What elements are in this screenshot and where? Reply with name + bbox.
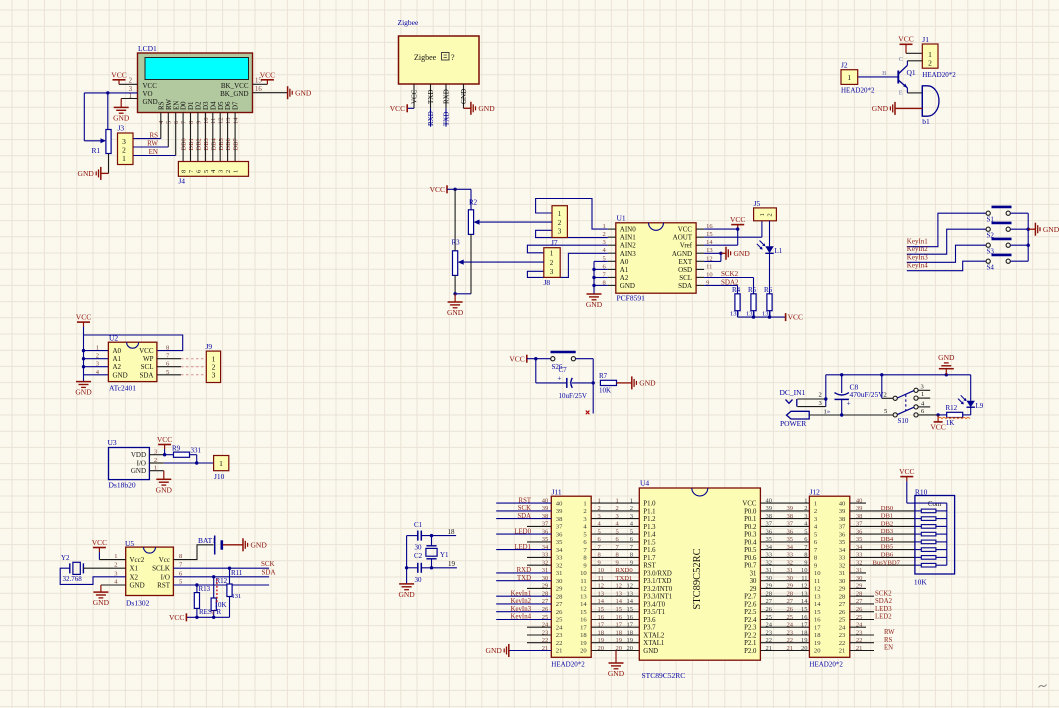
svg-text:29: 29: [856, 583, 863, 590]
svg-text:18: 18: [580, 632, 587, 639]
svg-text:1: 1: [122, 154, 126, 163]
svg-text:3: 3: [558, 227, 562, 235]
wires U4 to J12: [760, 502, 809, 504]
svg-text:21: 21: [787, 645, 794, 652]
svg-text:30: 30: [415, 576, 423, 584]
wire U3 GND: [163, 471, 165, 480]
svg-text:DB0: DB0: [181, 138, 188, 150]
svg-text:GND: GND: [608, 669, 625, 678]
svg-text:27: 27: [542, 598, 549, 605]
svg-text:30: 30: [750, 578, 757, 585]
svg-text:Ds18b20: Ds18b20: [109, 481, 136, 490]
svg-text:19: 19: [448, 560, 456, 568]
svg-text:22: 22: [556, 640, 563, 647]
svg-text:11: 11: [814, 578, 820, 585]
wire top rail: [826, 374, 971, 376]
svg-text:3: 3: [129, 86, 133, 93]
svg-text:27: 27: [839, 601, 846, 608]
svg-text:34: 34: [766, 544, 773, 551]
svg-text:17: 17: [598, 622, 605, 629]
svg-text:8: 8: [188, 121, 195, 124]
svg-text:2: 2: [129, 78, 133, 85]
svg-text:P3.1/TXD: P3.1/TXD: [643, 578, 671, 585]
wire J8 pin1 to U1 AIN2: [527, 245, 607, 253]
power VCC at U2: [83, 322, 85, 327]
svg-text:I/O: I/O: [161, 573, 170, 581]
svg-text:X1: X1: [130, 565, 139, 573]
svg-text:Vcc: Vcc: [159, 556, 170, 564]
svg-text:2: 2: [154, 457, 157, 464]
resistor R13: [195, 583, 198, 586]
svg-text:39: 39: [856, 505, 863, 512]
wire U1 VCC pin16: [704, 228, 738, 230]
svg-text:P0.6: P0.6: [744, 555, 757, 562]
svg-text:20: 20: [627, 645, 634, 652]
svg-text:24: 24: [766, 622, 773, 629]
ground at U1 address pins: [587, 293, 602, 295]
svg-text:12: 12: [218, 118, 225, 125]
svg-text:U4: U4: [640, 479, 649, 488]
LCD screen area: [145, 58, 249, 80]
svg-text:16: 16: [801, 614, 808, 621]
svg-text:RS: RS: [149, 131, 158, 139]
svg-text:P1.3: P1.3: [643, 524, 656, 531]
svg-text:R13: R13: [199, 585, 211, 593]
svg-text:38: 38: [556, 516, 563, 523]
svg-text:9: 9: [616, 560, 619, 567]
wire DC jack pin3: [797, 406, 825, 408]
svg-text:34: 34: [839, 547, 846, 554]
svg-text:VCC: VCC: [92, 538, 107, 547]
svg-text:AOUT: AOUT: [673, 234, 693, 242]
svg-text:P1.0: P1.0: [643, 501, 656, 508]
svg-text:DB6: DB6: [881, 552, 894, 559]
svg-text:18: 18: [814, 632, 821, 639]
svg-text:VCC: VCC: [143, 82, 158, 90]
wire J8 pin3 to U1 AIN3: [527, 253, 607, 277]
power VCC below S10: [936, 413, 939, 416]
svg-text:40: 40: [766, 497, 773, 504]
svg-text:DB4: DB4: [210, 137, 217, 150]
svg-text:29: 29: [787, 583, 794, 590]
svg-text:E: E: [899, 90, 903, 97]
svg-text:S4: S4: [987, 264, 995, 272]
svg-text:32: 32: [856, 560, 863, 567]
svg-text:Zigbee: Zigbee: [398, 18, 419, 27]
svg-text:21: 21: [856, 645, 863, 652]
svg-text:37: 37: [787, 521, 794, 528]
svg-text:32.768: 32.768: [63, 575, 83, 583]
svg-text:10K: 10K: [599, 387, 611, 395]
resistor R5: [751, 294, 756, 311]
svg-text:Y2: Y2: [61, 554, 70, 562]
svg-text:20: 20: [580, 648, 587, 655]
svg-text:GND: GND: [1043, 225, 1059, 234]
svg-text:17: 17: [801, 622, 808, 629]
svg-text:12: 12: [580, 586, 587, 593]
svg-text:9: 9: [195, 121, 202, 124]
svg-text:2: 2: [884, 391, 887, 398]
svg-text:29: 29: [556, 586, 563, 593]
svg-text:24: 24: [839, 624, 846, 631]
svg-text:32: 32: [839, 562, 846, 569]
svg-text:RW: RW: [884, 629, 895, 636]
svg-text:16: 16: [598, 614, 605, 621]
wire barrel to bottom rail: [809, 414, 893, 416]
svg-text:31: 31: [787, 567, 794, 574]
svg-text:Q1: Q1: [907, 68, 916, 77]
svg-text:26: 26: [787, 606, 794, 613]
svg-text:SCK: SCK: [518, 505, 531, 512]
wire RXD: [430, 108, 432, 126]
svg-text:POWER: POWER: [780, 419, 806, 428]
wire Y2 to U5 X1: [83, 567, 125, 569]
svg-text:8: 8: [630, 552, 633, 559]
svg-text:36: 36: [542, 528, 549, 535]
wire U5 I/O net SDA: [173, 576, 269, 578]
svg-text:28: 28: [542, 591, 549, 598]
svg-text:35: 35: [787, 536, 794, 543]
svg-text:10: 10: [580, 570, 587, 577]
svg-text:8: 8: [166, 345, 169, 352]
svg-text:1: 1: [598, 497, 601, 504]
svg-text:SDA2: SDA2: [875, 598, 893, 605]
svg-text:1: 1: [616, 497, 619, 504]
wire R2/R3 bottoms to ground: [455, 293, 471, 295]
svg-text:36: 36: [766, 528, 773, 535]
svg-text:P1.1: P1.1: [643, 508, 655, 515]
svg-text:P3.5/T1: P3.5/T1: [643, 609, 665, 616]
svg-text:37: 37: [766, 521, 773, 528]
svg-text:SDA: SDA: [139, 371, 153, 379]
svg-text:HEAD20*2: HEAD20*2: [841, 87, 875, 95]
svg-text:15: 15: [598, 606, 605, 613]
svg-text:10uF/25V: 10uF/25V: [559, 392, 587, 400]
wire RW: [167, 113, 169, 148]
svg-text:GND: GND: [113, 113, 130, 122]
svg-text:b1: b1: [922, 117, 930, 126]
ground at LCD pin1: [114, 106, 129, 108]
svg-text:U2: U2: [109, 334, 118, 343]
svg-text:1: 1: [847, 73, 851, 82]
svg-text:GND: GND: [113, 371, 128, 379]
svg-text:+: +: [557, 374, 561, 383]
svg-text:25: 25: [856, 614, 863, 621]
svg-text:P3.6: P3.6: [643, 617, 656, 624]
switch S10: [881, 375, 883, 399]
svg-text:18: 18: [627, 629, 634, 636]
wire U2 address pins: [83, 335, 85, 382]
resistor R4: [735, 294, 740, 311]
svg-text:2: 2: [616, 505, 619, 512]
svg-text:20: 20: [801, 645, 808, 652]
svg-text:RST: RST: [643, 563, 656, 570]
svg-text:EN: EN: [149, 148, 158, 156]
svg-text:39: 39: [542, 505, 549, 512]
svg-text:P3.0/RXD: P3.0/RXD: [643, 570, 672, 577]
wire J2 to Q1 base: [858, 76, 899, 78]
svg-text:DB6: DB6: [225, 137, 232, 150]
svg-text:5: 5: [804, 528, 807, 535]
svg-text:J1: J1: [922, 35, 929, 44]
wire R3 wiper to J8 pin2: [463, 261, 544, 263]
power VCC at Zigbee: [407, 107, 414, 109]
LCD pin 15 wire: [253, 83, 268, 85]
connector J4: [178, 162, 248, 177]
svg-text:2: 2: [225, 170, 232, 173]
no-ERC marker: [586, 411, 590, 415]
wire S26 to RST node: [576, 358, 594, 360]
svg-text:VCC: VCC: [411, 89, 419, 104]
svg-text:R12: R12: [946, 404, 958, 412]
wire S4 to ground rail: [1010, 260, 1028, 262]
svg-text:TXD1: TXD1: [616, 575, 633, 582]
capacitor C8: [841, 375, 843, 393]
wire U5 SCLK net SCK: [173, 567, 269, 569]
svg-text:Zigbee: Zigbee: [414, 53, 437, 62]
svg-text:33: 33: [787, 552, 794, 559]
svg-text:R1: R1: [92, 146, 101, 155]
svg-text:15: 15: [801, 606, 808, 613]
svg-text:R7: R7: [599, 372, 608, 380]
wire KeyIn2 to S2: [907, 229, 986, 254]
DC jack barrel POWER: [787, 411, 810, 419]
svg-text:HEAD20*2: HEAD20*2: [922, 71, 956, 79]
svg-text:3: 3: [212, 370, 216, 379]
svg-text:J5: J5: [754, 199, 761, 208]
svg-text:22: 22: [766, 637, 773, 644]
svg-text:R9: R9: [172, 445, 181, 453]
svg-text:GND: GND: [447, 308, 464, 317]
svg-text:40: 40: [542, 497, 549, 504]
svg-text:P3.3/INT1: P3.3/INT1: [643, 594, 672, 601]
svg-text:U3: U3: [108, 438, 117, 447]
svg-text:BusYBD7: BusYBD7: [873, 559, 901, 566]
svg-text:23: 23: [787, 629, 794, 636]
svg-text:P0.0: P0.0: [744, 508, 757, 515]
svg-text:P3.2/INT0: P3.2/INT0: [643, 586, 672, 593]
svg-text:19: 19: [580, 640, 587, 647]
ground at BAT1: [223, 544, 243, 546]
svg-text:GND: GND: [639, 379, 656, 388]
svg-text:3: 3: [921, 384, 924, 391]
svg-text:R11: R11: [231, 569, 243, 577]
svg-text:35: 35: [766, 536, 773, 543]
svg-text:3: 3: [550, 268, 554, 276]
svg-text:TXD: TXD: [517, 575, 531, 582]
svg-text:GND: GND: [78, 169, 95, 178]
svg-text:14: 14: [801, 598, 808, 605]
ground at buzzer: [895, 107, 922, 109]
svg-text:30: 30: [839, 578, 846, 585]
ground at top rail: [945, 369, 947, 375]
svg-text:LCD1: LCD1: [138, 44, 157, 53]
svg-text:DB2: DB2: [881, 521, 893, 528]
svg-text:J3: J3: [118, 124, 125, 133]
svg-text:DC_IN1: DC_IN1: [780, 388, 806, 397]
svg-text:8: 8: [616, 552, 619, 559]
svg-text:9: 9: [804, 560, 807, 567]
svg-text:DB1: DB1: [188, 138, 195, 150]
svg-text:31: 31: [750, 570, 757, 577]
resistor R6: [767, 294, 772, 311]
svg-text:31: 31: [839, 570, 846, 577]
LED L9: [970, 375, 972, 401]
svg-text:10: 10: [814, 570, 821, 577]
svg-text:12: 12: [616, 583, 623, 590]
svg-text:11: 11: [580, 578, 586, 585]
wire U1 SCL to R5: [704, 277, 753, 279]
svg-text:A2: A2: [620, 274, 629, 282]
svg-text:30: 30: [415, 544, 423, 552]
svg-text:14: 14: [616, 598, 623, 605]
svg-text:SCL: SCL: [679, 274, 692, 282]
ground at keys: [1034, 223, 1036, 236]
svg-text:TXD: TXD: [427, 90, 435, 104]
wire U5 RST: [173, 584, 269, 586]
svg-text:35: 35: [556, 539, 563, 546]
svg-text:SCK2: SCK2: [721, 270, 739, 278]
svg-text:11: 11: [706, 263, 712, 270]
svg-text:9: 9: [630, 560, 633, 567]
svg-text:1: 1: [550, 250, 554, 258]
wire U1 AOUT to J5: [704, 236, 762, 238]
svg-text:34: 34: [787, 544, 794, 551]
svg-text:14: 14: [233, 117, 240, 124]
svg-text:J9: J9: [206, 342, 213, 351]
svg-text:1: 1: [804, 497, 807, 504]
svg-text:39: 39: [556, 508, 563, 515]
svg-text:GND: GND: [143, 98, 158, 106]
svg-text:R4: R4: [732, 286, 741, 294]
ground at R1: [100, 167, 102, 180]
svg-text:24: 24: [542, 622, 549, 629]
svg-text:DB3: DB3: [203, 138, 210, 150]
svg-text:23: 23: [766, 629, 773, 636]
svg-text:18: 18: [598, 629, 605, 636]
svg-text:BK_GND: BK_GND: [220, 90, 248, 98]
svg-text:3: 3: [96, 361, 99, 368]
svg-text:33: 33: [856, 552, 863, 559]
svg-text:P2.0: P2.0: [744, 648, 757, 655]
svg-text:GND: GND: [734, 249, 751, 258]
svg-text:5: 5: [616, 528, 619, 535]
svg-text:24: 24: [787, 622, 794, 629]
svg-text:GND: GND: [586, 300, 603, 309]
svg-text:RS: RS: [884, 637, 893, 644]
wire U5 GND: [101, 584, 126, 586]
svg-text:27: 27: [556, 601, 563, 608]
svg-text:38: 38: [856, 513, 863, 520]
svg-text:VO: VO: [143, 90, 153, 98]
switch S1: [986, 211, 990, 215]
connector J7: [552, 206, 567, 238]
svg-text:32: 32: [542, 560, 549, 567]
ground at J11 pin21: [508, 644, 510, 657]
svg-text:R3: R3: [452, 239, 461, 247]
wire S2 to ground rail: [1010, 228, 1028, 230]
power VCC at pullups: [785, 313, 787, 321]
svg-text:11: 11: [801, 575, 807, 582]
svg-text:14: 14: [627, 598, 634, 605]
svg-text:C2: C2: [414, 552, 423, 560]
svg-text:1: 1: [233, 170, 240, 173]
svg-text:28: 28: [856, 591, 863, 598]
J11 left pin wires: [496, 502, 551, 504]
svg-text:GND: GND: [156, 485, 173, 494]
wire VO down to R1 top: [107, 93, 109, 130]
svg-text:X2: X2: [130, 573, 139, 581]
svg-text:12: 12: [814, 586, 821, 593]
svg-text:13: 13: [814, 593, 821, 600]
svg-text:2: 2: [819, 392, 822, 399]
svg-text:S10: S10: [898, 417, 909, 425]
wire R1 bottom to ground: [108, 154, 110, 174]
svg-text:30: 30: [556, 578, 563, 585]
svg-text:36: 36: [856, 528, 863, 535]
svg-text:B: B: [882, 70, 887, 77]
resistor R11: [228, 567, 231, 570]
svg-text:C: C: [899, 56, 903, 63]
svg-text:22: 22: [839, 640, 846, 647]
svg-text:16: 16: [627, 614, 634, 621]
svg-text:2: 2: [598, 505, 601, 512]
svg-text:27: 27: [766, 598, 773, 605]
svg-text:25: 25: [839, 617, 846, 624]
svg-text:GND: GND: [75, 388, 92, 397]
svg-text:AIN0: AIN0: [620, 226, 636, 234]
svg-text:24: 24: [556, 624, 563, 631]
svg-text:21: 21: [766, 645, 773, 652]
svg-text:2: 2: [814, 508, 817, 515]
svg-text:18: 18: [616, 629, 623, 636]
svg-text:16: 16: [255, 86, 262, 93]
svg-text:P1.2: P1.2: [643, 516, 656, 523]
svg-text:P3.4/T0: P3.4/T0: [643, 601, 665, 608]
resistor R12 power LED: [938, 414, 947, 416]
svg-text:Com: Com: [928, 501, 942, 508]
svg-text:GND: GND: [872, 104, 889, 113]
svg-text:Ds1302: Ds1302: [126, 599, 150, 608]
svg-text:36: 36: [839, 531, 846, 538]
power VCC at R2/R3: [446, 185, 448, 193]
svg-text:+: +: [847, 398, 851, 407]
svg-text:VCC: VCC: [390, 104, 405, 113]
ground at U3: [156, 478, 171, 480]
svg-text:C7: C7: [559, 366, 568, 374]
svg-text:A0: A0: [113, 347, 122, 355]
svg-text:RXD0: RXD0: [616, 567, 634, 574]
svg-text:J7: J7: [551, 238, 558, 247]
connector J8: [544, 248, 560, 278]
svg-text:40: 40: [556, 500, 563, 507]
svg-text:28: 28: [787, 591, 794, 598]
svg-text:13: 13: [225, 118, 232, 125]
svg-text:10K: 10K: [914, 578, 928, 587]
svg-text:DB0: DB0: [881, 505, 894, 512]
svg-text:R6: R6: [764, 286, 773, 294]
svg-text:C1: C1: [414, 521, 423, 529]
LCD pin 1 GND wire: [121, 98, 137, 100]
svg-text:23: 23: [856, 629, 863, 636]
svg-text:3: 3: [154, 449, 157, 456]
svg-text:VCC: VCC: [430, 185, 445, 194]
svg-text:R: R: [217, 608, 222, 616]
svg-text:GND: GND: [93, 598, 110, 607]
svg-text:3: 3: [819, 400, 822, 407]
switch S26: [551, 357, 555, 361]
svg-text:√: √: [211, 609, 215, 617]
